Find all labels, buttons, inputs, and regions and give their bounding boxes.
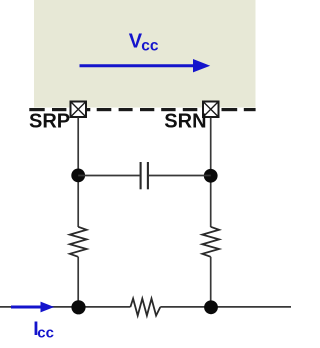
label SRP	[29, 110, 70, 132]
wire left node to capacitor	[78, 175, 139, 177]
node A (left capacitor junction)	[71, 169, 85, 183]
label SRN	[164, 110, 206, 132]
svg-text:cc: cc	[37, 325, 54, 342]
node B (right capacitor junction)	[204, 169, 218, 183]
dashed boundary line	[29, 108, 255, 111]
wire right resistor to bottom node	[210, 257, 212, 307]
terminal SRP	[71, 102, 87, 118]
wire bottom right rail	[160, 306, 291, 308]
Vcc supply block (shaded region)	[34, 0, 256, 108]
Icc current arrow	[11, 302, 54, 313]
wire capacitor to right node	[149, 175, 211, 177]
wire SRP terminal to left node	[77, 118, 79, 228]
wire left resistor to bottom node	[77, 257, 79, 307]
node D (bottom right junction)	[204, 300, 218, 314]
svg-text:SRN: SRN	[164, 110, 206, 132]
node C (bottom left junction)	[71, 300, 85, 314]
Vcc current arrow	[80, 59, 211, 72]
wire bottom left rail	[0, 306, 130, 308]
terminal SRN	[203, 102, 219, 118]
svg-text:cc: cc	[141, 38, 159, 55]
capacitor C1	[141, 162, 148, 189]
resistor R2 (right sense resistor)	[202, 227, 219, 257]
wire SRN terminal to right node	[210, 118, 212, 228]
resistor R3 (shunt resistor)	[130, 299, 160, 316]
resistor R1 (left sense resistor)	[70, 227, 87, 257]
svg-text:SRP: SRP	[29, 110, 70, 132]
Icc label	[33, 318, 54, 341]
Vcc label	[129, 31, 159, 55]
